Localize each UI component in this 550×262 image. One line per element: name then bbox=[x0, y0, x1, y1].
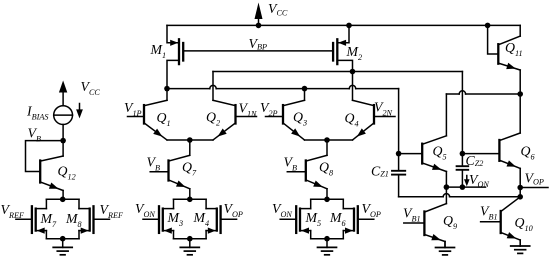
transistor M1 channel bbox=[178, 39, 180, 64]
wire Q11 collector bbox=[519, 25, 521, 36]
wire Q10 emitter bbox=[519, 240, 521, 246]
wire Q7 collector bbox=[189, 140, 191, 155]
wire Q5 collector bbox=[445, 94, 447, 136]
label VON (output) bbox=[469, 172, 489, 189]
transistor Q1 bbox=[128, 100, 168, 140]
label Q9 bbox=[443, 213, 457, 231]
label VB1 (Q9) bbox=[403, 206, 421, 224]
wire Q6 collector bbox=[519, 94, 521, 133]
transistor pair M5 M6 cell bbox=[280, 197, 374, 242]
transistor Q10 bbox=[481, 197, 521, 240]
label Q10 bbox=[515, 215, 533, 233]
label M3 bbox=[167, 210, 184, 228]
transistor Q9 bbox=[404, 204, 447, 242]
label V2N bbox=[374, 100, 393, 118]
wire P-side output (y88) bbox=[167, 85, 399, 88]
transistor Q7 bbox=[150, 155, 190, 189]
transistor M1 gate bar bbox=[182, 43, 184, 61]
transistor Q5 bbox=[399, 136, 447, 172]
wire N-side output (y71) bbox=[213, 71, 462, 73]
ground (M3 M4) bbox=[180, 239, 199, 255]
wire Q11 base bbox=[488, 25, 499, 54]
node Q11 emitter dot bbox=[517, 91, 523, 97]
transistor M2 drain wire bbox=[337, 60, 352, 71]
node M2 source rail dot bbox=[346, 23, 352, 29]
wire VOP bbox=[520, 187, 548, 189]
node M2 drain / Q4 collector dot bbox=[350, 69, 356, 75]
label VB (Q7) bbox=[147, 155, 160, 173]
label Q3 bbox=[293, 110, 307, 128]
transistor Q11 bbox=[498, 36, 520, 70]
label M4 bbox=[193, 210, 210, 228]
transistor Q2 bbox=[213, 100, 257, 140]
transistor Q8 bbox=[287, 155, 327, 189]
wire Q12 collector bbox=[62, 141, 64, 156]
wire Q1 collector bbox=[166, 89, 168, 101]
capacitor CZ1 bbox=[392, 171, 405, 175]
label Q7 bbox=[182, 160, 197, 178]
node VCC junction (arrow stem) bbox=[258, 10, 260, 25]
transistor M1 drain wire bbox=[167, 60, 179, 88]
label VCC (top) bbox=[268, 1, 288, 18]
label VREF (M8) bbox=[100, 202, 124, 220]
wire Q1-Q2 emitter joint bbox=[167, 139, 213, 141]
wire Q4 collector bbox=[352, 72, 354, 101]
wire CZ2 bottom bbox=[461, 171, 463, 187]
wire VON bbox=[446, 186, 485, 188]
label M8 bbox=[65, 211, 82, 229]
node VCC rail dot bbox=[256, 23, 262, 29]
wire CZ1 bottom bbox=[398, 176, 400, 197]
label VB1 (Q10) bbox=[480, 204, 498, 222]
ground (M5 M6) bbox=[318, 239, 337, 255]
label Q8 bbox=[319, 160, 333, 178]
label VBP bbox=[249, 36, 267, 52]
node VOP dot bbox=[517, 185, 523, 191]
ground (M7 M8) bbox=[53, 239, 72, 255]
label VB (Q8) bbox=[284, 155, 297, 173]
label Q4 bbox=[345, 111, 359, 129]
transistor M1 source arrow bbox=[170, 40, 178, 46]
wire Q11 emitter bbox=[519, 70, 521, 94]
node VB dot bbox=[60, 138, 66, 144]
current source IBIAS circle bbox=[54, 106, 73, 125]
node Q11 base rail dot bbox=[485, 23, 491, 29]
node VON dot (Q5 emitter) bbox=[444, 184, 450, 190]
current direction arrow bbox=[76, 104, 83, 119]
label V1N bbox=[239, 101, 258, 119]
wire CZ2 top (from N output) bbox=[461, 72, 463, 166]
transistor pair M7 M8 cell bbox=[16, 197, 110, 242]
capacitor CZ2 bbox=[457, 166, 469, 170]
transistor Q3 bbox=[266, 100, 305, 140]
transistor Q12 bbox=[40, 156, 63, 191]
label Q12 bbox=[58, 164, 76, 182]
ground (Q10) bbox=[511, 240, 530, 253]
wire IBIAS to VB node bbox=[62, 125, 64, 141]
wire VBP net bbox=[184, 50, 332, 52]
wire Q7 emitter bbox=[189, 189, 191, 200]
power VCC arrow (IBIAS) bbox=[59, 81, 67, 106]
label CZ1 bbox=[371, 164, 389, 179]
label M1 bbox=[150, 42, 167, 60]
wire Q12 emitter bbox=[62, 191, 64, 200]
transistor M2 source arrow bbox=[338, 40, 346, 46]
label CZ2 bbox=[466, 153, 484, 168]
node VON dot (CZ2) bbox=[460, 184, 466, 190]
label V2P bbox=[260, 100, 278, 118]
transistor Q6 bbox=[462, 133, 520, 168]
label VON (M5) bbox=[272, 201, 292, 219]
node VOP lower dot bbox=[517, 194, 523, 200]
node Q5 base dot bbox=[396, 151, 402, 157]
power VCC arrow bbox=[255, 3, 263, 20]
label VCC (IBIAS) bbox=[81, 79, 101, 97]
node Q3 collector dot bbox=[302, 86, 308, 92]
node VON arrow bbox=[464, 176, 470, 187]
transistor Q4 bbox=[353, 100, 396, 140]
wire CZ1 top (from P output) bbox=[398, 89, 400, 170]
wire Q5 collector net (y94) bbox=[446, 91, 520, 94]
label Q6 bbox=[521, 144, 536, 162]
node Q6 base dot bbox=[460, 151, 466, 157]
transistor M2 source wire bbox=[337, 25, 349, 42]
wire VCC rail bbox=[167, 24, 520, 26]
transistor M2 channel bbox=[336, 39, 338, 64]
label VOP (M6) bbox=[362, 201, 381, 219]
transistor pair M3 M4 cell bbox=[143, 197, 237, 242]
node pair1 tail dot bbox=[187, 137, 193, 143]
label M6 bbox=[329, 210, 347, 228]
label VREF (M7) bbox=[1, 202, 25, 220]
label Q5 bbox=[433, 144, 447, 162]
label M7 bbox=[40, 211, 58, 229]
wire Q8 collector bbox=[326, 140, 328, 155]
label VON (M3) bbox=[135, 201, 155, 219]
wire Q9 collector bbox=[445, 187, 447, 204]
label IBIAS bbox=[26, 104, 48, 122]
transistor M2 gate bar bbox=[332, 43, 334, 61]
wire CZ1 to VOP bbox=[399, 194, 521, 197]
label VOP (output) bbox=[525, 171, 544, 187]
wire Q3 collector bbox=[304, 89, 306, 101]
transistor M1 source wire bbox=[167, 25, 179, 42]
label VOP (M4) bbox=[224, 201, 243, 219]
label V1P bbox=[124, 100, 142, 118]
wire Q8 emitter bbox=[326, 189, 328, 200]
label Q1 bbox=[157, 110, 171, 128]
label Q11 bbox=[505, 40, 523, 58]
ground (Q9) bbox=[436, 242, 455, 255]
node pair2 tail dot bbox=[324, 137, 330, 143]
wire Q6 emitter bbox=[519, 168, 521, 197]
label M5 bbox=[305, 210, 322, 228]
wire Q2 collector bbox=[212, 72, 214, 101]
wire VB loop bbox=[26, 141, 64, 172]
label VB (Q12) bbox=[28, 126, 41, 144]
wire Q3-Q4 emitter joint bbox=[305, 139, 353, 141]
label Q2 bbox=[206, 110, 220, 128]
wire Q9 emitter bbox=[444, 242, 446, 248]
label M2 bbox=[346, 44, 363, 62]
node M1 drain / Q1 collector dot bbox=[164, 86, 170, 92]
wire Q5 emitter bbox=[445, 172, 447, 188]
